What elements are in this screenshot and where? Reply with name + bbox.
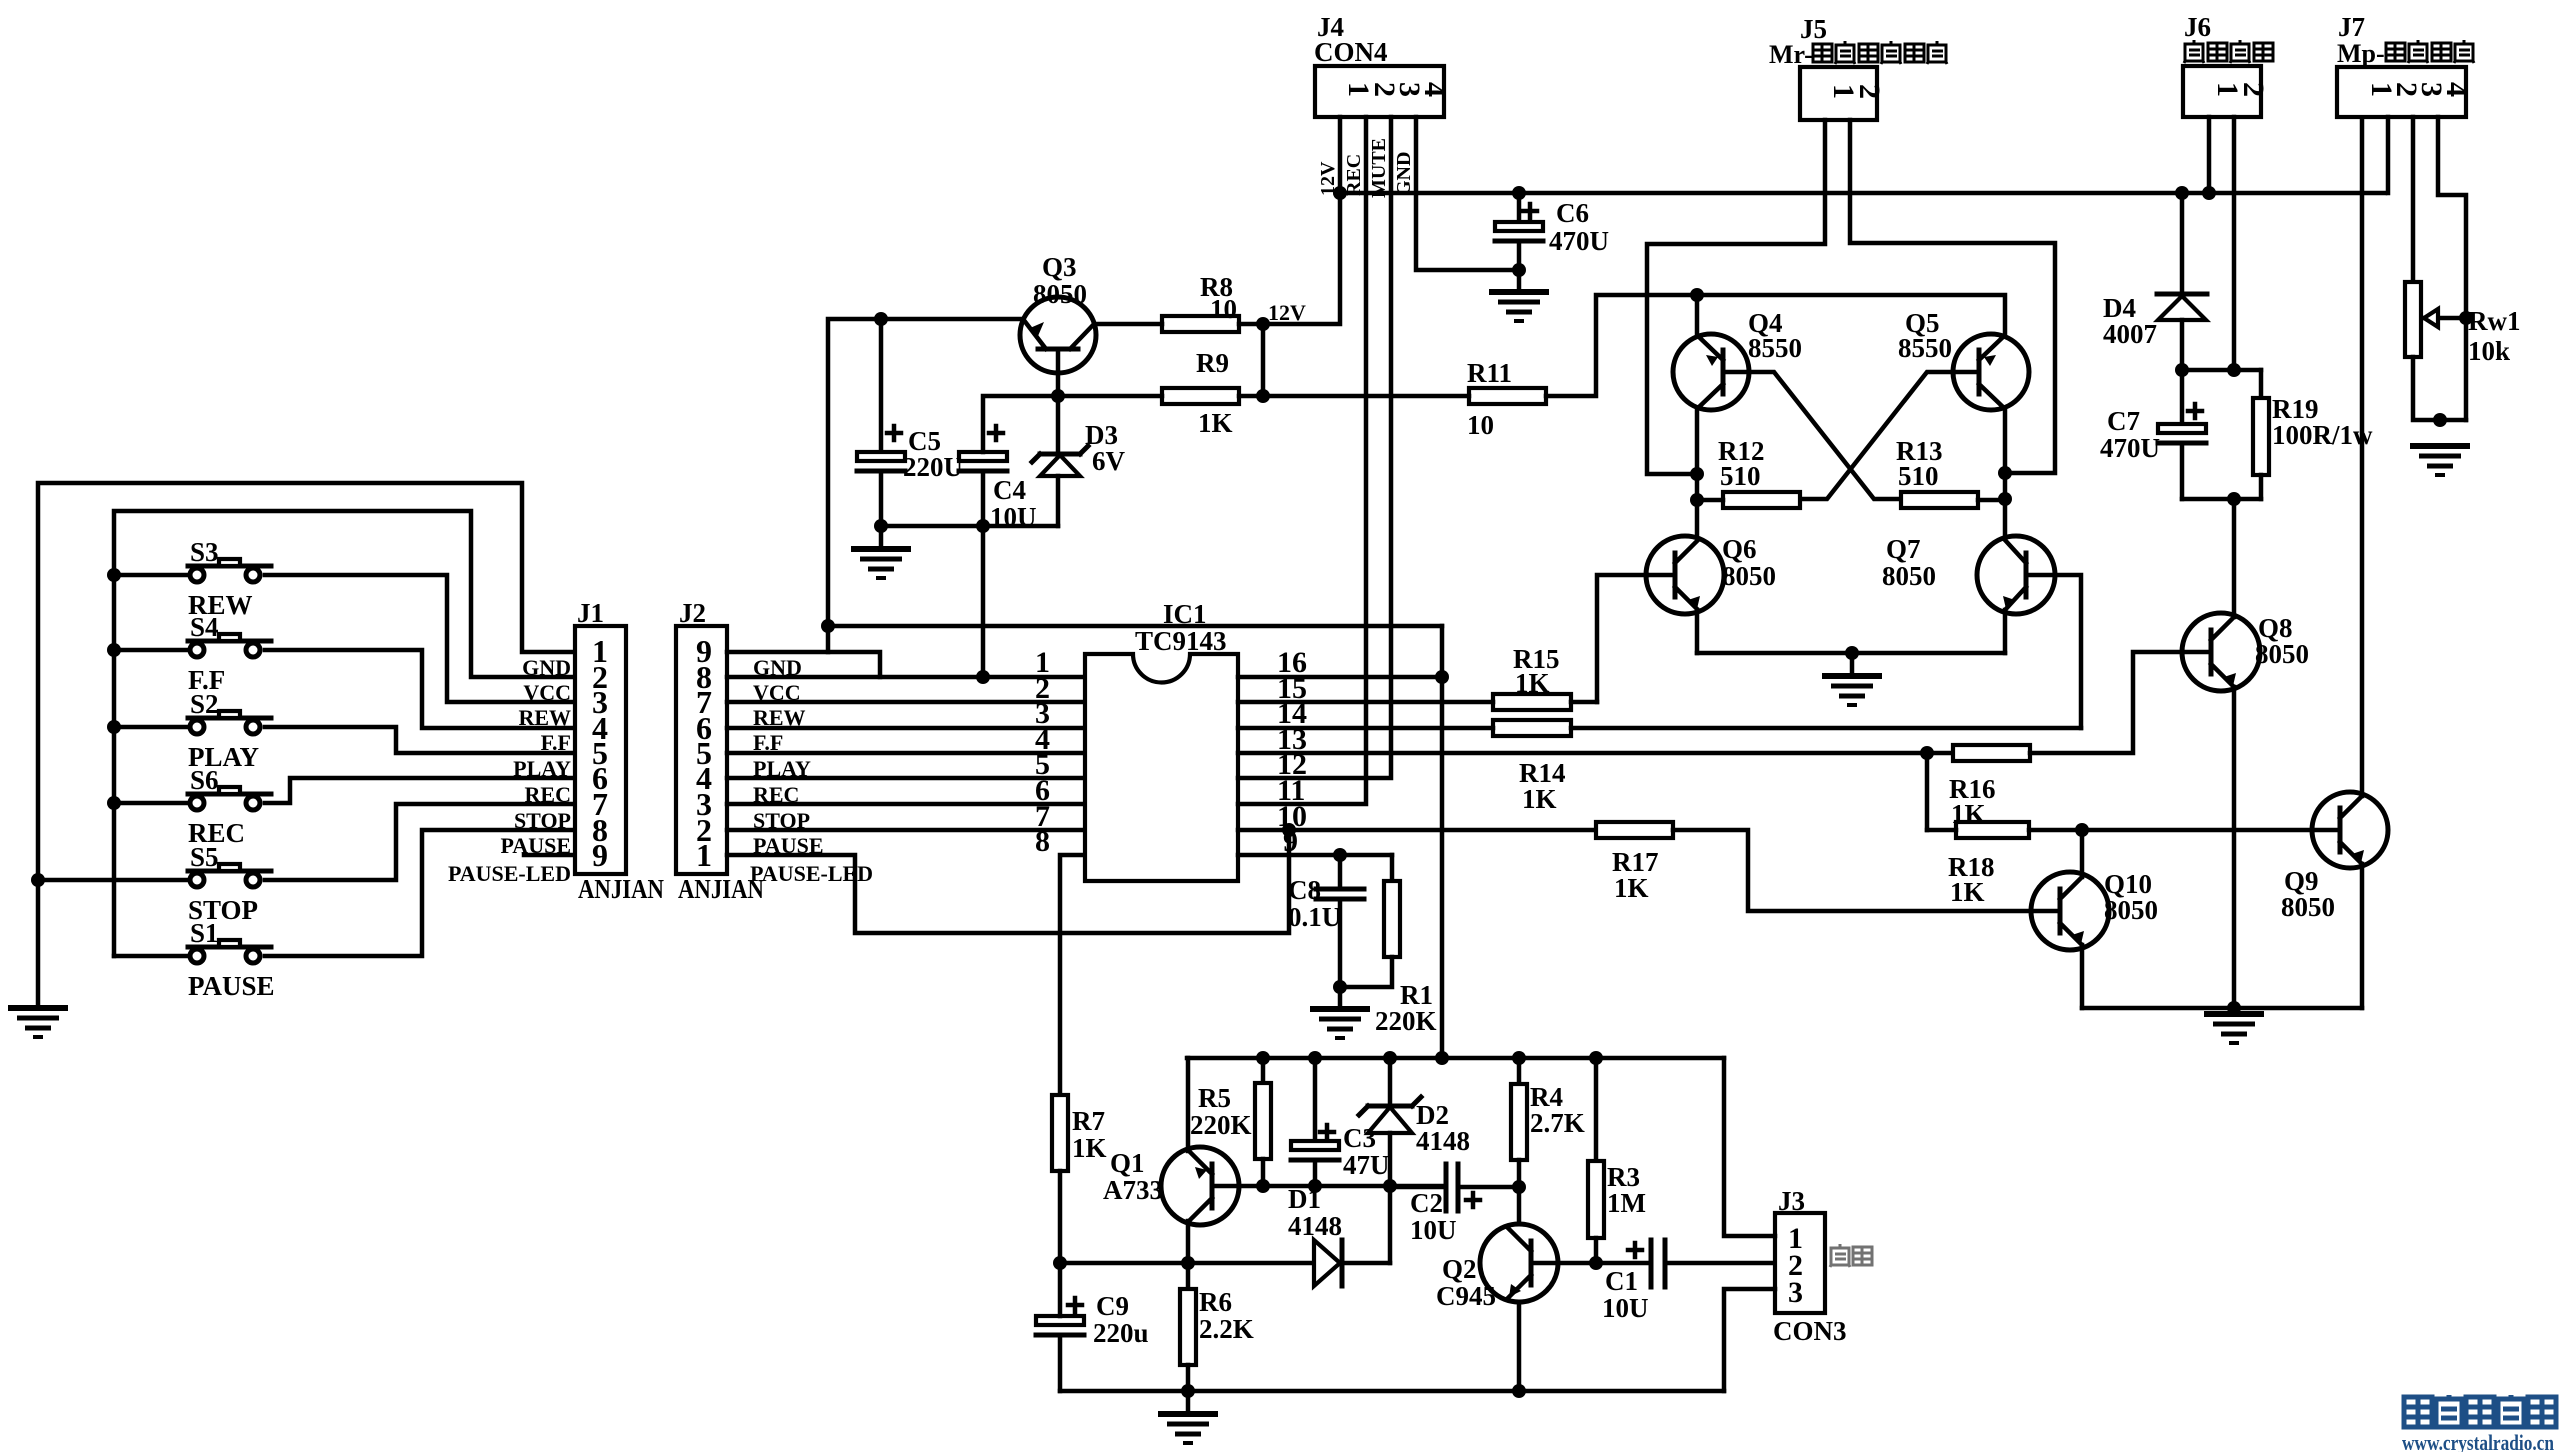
zener D3 6V <box>1032 373 1126 526</box>
junction: Q5 collector / R13 <box>1998 492 2012 506</box>
wire: Q9 emitter down <box>2360 864 2365 1008</box>
net label GND (rotated) <box>1393 152 1415 196</box>
svg-text:8050: 8050 <box>1722 561 1776 591</box>
capacitor C8 0.1U <box>1288 855 1364 987</box>
svg-text:S1: S1 <box>190 918 219 948</box>
wire: Q10 collector up to R18 row <box>2080 830 2085 877</box>
ground (C5 rail) <box>851 526 911 578</box>
wire: Q1 collector down <box>1186 1221 1191 1263</box>
svg-text:CON3: CON3 <box>1773 1316 1847 1346</box>
wire: J5 pin1 to Q4 collector <box>1647 120 1825 474</box>
junction: J6 pin2 row <box>2227 363 2241 377</box>
wire: J1 pin9 stub <box>524 853 575 858</box>
svg-text:510: 510 <box>1898 461 1939 491</box>
svg-text:S2: S2 <box>190 689 219 719</box>
wire: J2 pin5 PLAY row to IC pin5 <box>727 751 1085 756</box>
wire: S3 left to rail <box>107 568 190 582</box>
ground (oscillator) <box>1158 1391 1218 1443</box>
svg-text:0.1U: 0.1U <box>1288 902 1341 932</box>
J7 pin numbers 1-4 (rotated) <box>2365 82 2473 97</box>
svg-text:PAUSE-LED: PAUSE-LED <box>448 861 571 886</box>
svg-text:1K: 1K <box>1515 668 1550 698</box>
svg-text:TC9143: TC9143 <box>1135 626 1227 656</box>
label: 矿石收音机 watermark <box>2402 1395 2556 1452</box>
pin numbers J1 1-9 <box>592 633 608 873</box>
connector J5 Mr motor <box>1800 14 1877 120</box>
svg-text:9: 9 <box>592 837 608 873</box>
svg-text:8050: 8050 <box>1033 279 1087 309</box>
wire: oscillator top rail <box>1187 1056 1724 1061</box>
junction: R6 bottom <box>1181 1384 1195 1398</box>
wire: IC pin13 row to R16 <box>1238 751 1953 756</box>
resistor R13 510 <box>1896 436 2005 508</box>
svg-text:4: 4 <box>2440 82 2473 97</box>
svg-text:1M: 1M <box>1607 1188 1646 1218</box>
svg-text:8550: 8550 <box>1748 333 1802 363</box>
svg-text:2: 2 <box>1853 84 1886 99</box>
wire: Q6 emitter down <box>1695 610 1700 653</box>
svg-text:Mp-: Mp- <box>2337 39 2385 68</box>
junction: pin10 / PAUSE-LED riser <box>1282 823 1296 837</box>
connector J7 Mp motor <box>2337 12 2466 117</box>
svg-text:C4: C4 <box>993 475 1026 505</box>
svg-text:220K: 220K <box>1375 1006 1437 1036</box>
wire: J3 pin1 to rail <box>1724 1058 1775 1236</box>
svg-text:STOP: STOP <box>514 808 571 833</box>
capacitor C9 220u <box>1036 1263 1149 1391</box>
J1 side net labels <box>448 655 571 886</box>
svg-text:8550: 8550 <box>1898 333 1952 363</box>
junction: pin16 horizontal on 828 vertical <box>821 619 835 633</box>
svg-text:10: 10 <box>1467 410 1494 440</box>
svg-text:Q6: Q6 <box>1722 534 1757 564</box>
switch S4 <box>188 612 271 695</box>
svg-text:R5: R5 <box>1198 1083 1231 1113</box>
svg-text:1: 1 <box>696 837 712 873</box>
svg-text:1K: 1K <box>1522 784 1557 814</box>
net label REC (rotated) <box>1343 154 1365 196</box>
svg-text:S3: S3 <box>190 537 219 567</box>
svg-text:1K: 1K <box>1950 877 1985 907</box>
capacitor C2 10U <box>1390 1164 1519 1245</box>
transistor Q8 8050 <box>2182 613 2309 691</box>
wire: Q5 base cross diagonal to R12 <box>1800 372 1953 499</box>
ground (flip-flop) <box>1822 653 1882 705</box>
label: Mr-快进快倒电机 <box>1769 40 1947 69</box>
wire: J2 pin6 F.F row to IC pin4 <box>727 726 1085 731</box>
junction: C5 gnd <box>874 519 888 533</box>
wire: S6 right to J1 pin6 <box>265 778 575 803</box>
svg-text:4: 4 <box>1418 82 1451 97</box>
wire: S1 left to rail bottom <box>114 954 190 959</box>
wire: J2 pin7 REW row to IC pin3 <box>727 700 1085 705</box>
switch S2 <box>188 689 271 772</box>
resistor R8 10 <box>1094 272 1263 332</box>
svg-text:Q7: Q7 <box>1886 534 1921 564</box>
svg-text:R11: R11 <box>1467 358 1512 388</box>
svg-text:10U: 10U <box>1410 1215 1457 1245</box>
transistor Q10 8050 <box>2031 869 2158 950</box>
wire: J6 pin1 to bus <box>2207 117 2212 193</box>
wire: J4 pin1 12V feed <box>1263 117 1340 324</box>
op-amp U1: IC1 TC9143 controller <box>1085 599 1238 881</box>
IC1 left pin numbers 1-8 <box>1035 646 1050 858</box>
svg-text:C1: C1 <box>1605 1266 1638 1296</box>
wire: riser R16-left to R18-left <box>1925 753 1930 830</box>
wire: J2 pin2 PAUSE row to IC pin8 <box>727 828 1085 833</box>
wire: Q4 base cross diagonal to R13 <box>1749 372 1901 499</box>
resistor R15 1K <box>1238 644 1597 710</box>
resistor R7 1K <box>1052 1095 1107 1263</box>
wire: R11 to flip-flop emitters <box>1546 295 2005 396</box>
transistor Q7 8050 <box>1882 534 2055 614</box>
wire: Q1 emitter up to rail <box>1186 1058 1191 1151</box>
wire: Q1 base row <box>1239 1184 1446 1189</box>
svg-text:REC: REC <box>525 782 571 807</box>
pin numbers J2 9-1 <box>696 633 712 873</box>
junction: bus at D4 branch <box>2175 186 2189 200</box>
junction: emitter/C5 <box>874 312 888 326</box>
svg-text:PAUSE: PAUSE <box>501 833 572 858</box>
wire: Q4 emitter up <box>1695 295 1700 336</box>
node 12V <box>1256 300 1306 396</box>
resistor R16 1K <box>1949 745 2030 829</box>
wire: J2 pin9 GND row with jog to IC pin1 <box>727 652 1085 677</box>
svg-text:4148: 4148 <box>1288 1211 1342 1241</box>
wire: Q7 emitter down <box>2003 610 2008 653</box>
connector J6 播放磁吸 <box>2183 12 2261 117</box>
wire: R7 bottom to Q1 collector <box>1060 1261 1188 1266</box>
connector J1 <box>575 598 664 904</box>
junction: C6 bottom / J4 gnd <box>1512 263 1526 277</box>
wire: S2 right to J1 pin5 <box>265 727 575 753</box>
diode D4 4007 <box>2103 193 2207 370</box>
transistor Q6 8050 <box>1646 534 1776 614</box>
svg-text:CON4: CON4 <box>1314 37 1388 67</box>
capacitor C7 470U <box>2100 370 2206 499</box>
svg-text:470U: 470U <box>1549 226 1609 256</box>
junction: gnd rail tap <box>2227 1001 2241 1015</box>
wire: IC pin10 row to R17 <box>1238 828 1596 833</box>
svg-text:220u: 220u <box>1093 1318 1149 1348</box>
resistor R1 220K <box>1340 855 1437 1036</box>
wire: Q8/Q9/Q10 ground rail <box>2082 1006 2362 1011</box>
wire: pin16 link 828 to 1442 <box>828 624 1442 629</box>
junction: D2 bottom on base row <box>1383 1179 1397 1193</box>
wire: Q6 base from R15 riser <box>1597 575 1647 702</box>
connector J2 <box>676 598 764 904</box>
svg-text:10: 10 <box>1210 294 1237 324</box>
svg-text:R6: R6 <box>1199 1287 1232 1317</box>
junction: base/R5 <box>1256 1179 1270 1193</box>
transistor Q2 C945 <box>1436 1224 1558 1311</box>
wire: S1 right to J1 pin8 <box>265 830 575 956</box>
svg-text:D1: D1 <box>1288 1184 1321 1214</box>
wire: R18 to Q9 base <box>2029 828 2312 833</box>
wire: J7 pin4 to wiper rail <box>2438 117 2466 420</box>
svg-text:3: 3 <box>1788 1276 1803 1309</box>
svg-text:VCC: VCC <box>523 680 571 705</box>
zener D2 4148 <box>1359 1058 1470 1186</box>
junction: Q3 base / zener node <box>1051 389 1065 403</box>
svg-text:www.crystalradio.cn: www.crystalradio.cn <box>2402 1430 2554 1452</box>
svg-text:C2: C2 <box>1410 1188 1443 1218</box>
wire: ground rail left (node GND) <box>38 483 575 1005</box>
resistor R9 1K <box>1058 348 1263 438</box>
junction: R7 bottom node <box>1053 1256 1067 1270</box>
resistor R17 1K <box>1596 822 1673 903</box>
wire: pin16 riser to oscillator rail <box>1440 626 1445 1058</box>
wire: J2 pin8 VCC row <box>727 675 880 680</box>
J6 pin numbers (rotated) <box>2211 82 2270 97</box>
svg-text:470U: 470U <box>2100 433 2160 463</box>
junction: wiper tap <box>2459 311 2473 325</box>
junction: Q1 collector node <box>1181 1256 1195 1270</box>
capacitor C3 47U <box>1291 1058 1390 1186</box>
wire: C4 bottom <box>981 471 986 526</box>
label: 播放磁吸 <box>2184 40 2273 63</box>
wire: C7/R19 bottom row <box>2182 497 2261 502</box>
svg-text:8050: 8050 <box>2281 892 2335 922</box>
svg-text:REC: REC <box>1343 154 1365 196</box>
wire: J7 pin2 to bus end <box>2386 117 2391 193</box>
svg-text:Q2: Q2 <box>1442 1254 1477 1284</box>
svg-text:GND: GND <box>522 655 571 680</box>
transistor Q3 8050 <box>1020 252 1096 373</box>
junction: pin13/R18 riser <box>1920 746 1934 760</box>
junction: bus at C6 <box>1512 186 1526 200</box>
ground (Rw1) <box>2410 446 2470 475</box>
wire: J4 pin4 GND to C6 bottom <box>1416 117 1519 270</box>
wire: Q9 collector up to J7 pin1 <box>2360 117 2365 796</box>
wire: J4 pin2 REC to IC pin11 <box>1238 117 1366 804</box>
capacitor C1 10U <box>1602 1240 1775 1323</box>
svg-text:MUTE: MUTE <box>1368 138 1390 198</box>
resistor R3 1M <box>1588 1058 1646 1263</box>
svg-text:C945: C945 <box>1436 1281 1496 1311</box>
svg-text:ANJIAN: ANJIAN <box>578 874 664 904</box>
IC1 right pin numbers 16-9 <box>1277 646 1307 858</box>
svg-text:8050: 8050 <box>1882 561 1936 591</box>
svg-text:8050: 8050 <box>2255 639 2309 669</box>
wire: Q2 collector up <box>1517 1187 1522 1224</box>
svg-text:PAUSE: PAUSE <box>188 971 275 1001</box>
junction: Rw1 gnd tap <box>2433 413 2447 427</box>
wire: Rw1 bottom row <box>2413 357 2466 420</box>
svg-text:10U: 10U <box>1602 1293 1649 1323</box>
svg-text:1K: 1K <box>1072 1133 1107 1163</box>
svg-text:220K: 220K <box>1190 1110 1252 1140</box>
svg-text:100R/1w: 100R/1w <box>2272 420 2373 450</box>
wire: Q7 base from R14 riser <box>2055 575 2081 728</box>
svg-text:C7: C7 <box>2107 406 2140 436</box>
switch S5 <box>188 842 271 925</box>
resistor R4 2.7K <box>1511 1058 1585 1187</box>
wire: oscillator bottom rail <box>1060 1389 1724 1394</box>
svg-text:GND: GND <box>1393 152 1415 196</box>
junction: rail taps <box>1256 1051 1603 1065</box>
wire: J5 pin2 to Q5 collector <box>1850 120 2055 473</box>
junction: bus at J4 pin1 <box>1333 186 1347 200</box>
resistor R6 2.2K <box>1180 1263 1254 1391</box>
wire: S4 left to rail <box>107 643 190 657</box>
junction: C8 tap <box>1333 848 1347 862</box>
switch S3 <box>188 537 271 620</box>
label: Mp-播放电机 <box>2337 39 2474 68</box>
junction: Q2 emitter bottom <box>1512 1384 1526 1398</box>
junction: bus at J6 pin1 <box>2202 186 2216 200</box>
wire: Q4 collector down to R12/Q6 <box>1695 408 1700 537</box>
junction: Q4 collector / J5 wire <box>1690 467 1704 481</box>
svg-text:6V: 6V <box>1092 446 1126 476</box>
wire: J2 pin4 REC row to IC pin6 <box>727 776 1085 781</box>
J5 pin numbers 1-2 (rotated) <box>1827 84 1886 99</box>
svg-text:47U: 47U <box>1343 1150 1390 1180</box>
ground (C8/R1) <box>1310 987 1370 1038</box>
svg-text:4148: 4148 <box>1416 1126 1470 1156</box>
resistor R11 10 <box>1263 358 1546 440</box>
svg-text:R7: R7 <box>1072 1106 1105 1136</box>
svg-text:J6: J6 <box>2184 12 2211 42</box>
junction: R4/C2/Q2 collector <box>1512 1180 1526 1194</box>
svg-text:J2: J2 <box>679 598 706 628</box>
junction: Q4 collector / R12 <box>1690 493 1704 507</box>
wire: J4 pin3 MUTE to IC pin12 <box>1238 117 1391 778</box>
wire: 12V bus <box>1340 191 2385 196</box>
net label 12V (rotated) <box>1317 161 1339 196</box>
svg-text:2: 2 <box>2237 82 2270 97</box>
svg-text:8050: 8050 <box>2104 895 2158 925</box>
wire: Q10 emitter down <box>2080 945 2085 1008</box>
resistor R5 220K <box>1190 1058 1271 1186</box>
svg-text:4007: 4007 <box>2103 319 2157 349</box>
svg-text:1K: 1K <box>1198 408 1233 438</box>
svg-text:R9: R9 <box>1196 348 1229 378</box>
svg-text:2.7K: 2.7K <box>1530 1108 1585 1138</box>
ground (left rail) <box>8 1008 68 1037</box>
label: 霍尔 (hall) <box>1830 1244 1872 1267</box>
switch S1 <box>188 918 275 1001</box>
wire: J7 pin3 to Rw1 top <box>2411 117 2416 282</box>
junction: pin16 row <box>1435 670 1449 684</box>
resistor R19 100R/1w <box>2253 370 2373 499</box>
svg-text:J7: J7 <box>2338 12 2365 42</box>
capacitor C4 10U <box>959 426 1037 532</box>
junction: C3 bottom on base row <box>1308 1179 1322 1193</box>
wire: S5 left to ground rail <box>31 873 190 887</box>
ground (C6) <box>1489 270 1549 321</box>
wire: D4/C7/R19 top row <box>2182 368 2261 373</box>
wire: S3 right to J1 pin3 <box>265 575 575 702</box>
svg-text:PLAY: PLAY <box>513 756 571 781</box>
wire: IC pin16 row <box>1238 675 1442 680</box>
ground (output stage) <box>2204 1014 2264 1043</box>
connector J3 CON3 <box>1773 1186 1847 1346</box>
svg-text:C8: C8 <box>1288 875 1321 905</box>
wire: C5 top lead <box>879 319 884 456</box>
wire: Q2 emitter down to gnd rail <box>1517 1302 1522 1391</box>
junction: R9/R11 row at 12V drop <box>1256 389 1270 403</box>
svg-text:510: 510 <box>1720 461 1761 491</box>
junction: Q10 collector on R18 row <box>2075 823 2089 837</box>
wire: D1 cathode riser to D2 <box>1388 1186 1393 1263</box>
transistor Q4 8550 <box>1673 308 1802 410</box>
wire: Q8 collector up to C7/R19 rail <box>2232 499 2237 617</box>
wire: Q5 collector down to R13/Q7 <box>2003 408 2008 537</box>
svg-text:Q1: Q1 <box>1110 1148 1145 1178</box>
junction: C4 gnd <box>976 519 990 533</box>
potentiometer Rw1 10k <box>2405 282 2521 366</box>
svg-text:8: 8 <box>1035 825 1050 858</box>
svg-text:10k: 10k <box>2468 336 2510 366</box>
wire: S6 left to rail <box>107 796 190 810</box>
capacitor C5 220U <box>857 426 963 482</box>
junction: C4 rail to IC pin1 <box>976 670 990 684</box>
transistor Q5 8550 <box>1898 308 2029 410</box>
J2 side net labels <box>750 655 873 886</box>
wire: switch common rail to J1 pin2 <box>114 511 575 956</box>
svg-text:REW: REW <box>518 705 571 730</box>
wire: C4 rail down to IC pin1 row <box>981 526 986 677</box>
junction: base/R3 <box>1589 1256 1603 1270</box>
junction: C8/R1 bottom <box>1333 980 1347 994</box>
wire: Q2 base row <box>1558 1261 1651 1266</box>
wire: J3 pin3 to bottom rail <box>1724 1289 1775 1391</box>
wire: C4 top to base node <box>983 396 1058 452</box>
svg-text:J1: J1 <box>577 598 604 628</box>
wire: R17 to Q10 base <box>1673 830 2031 911</box>
wire: Q6/Q7 emitter gnd rail <box>1697 651 2005 656</box>
switch S6 <box>188 765 271 848</box>
net label MUTE (rotated) <box>1368 138 1390 198</box>
svg-text:Rw1: Rw1 <box>2468 306 2521 336</box>
wire: S2 left to rail <box>107 720 190 734</box>
wire: J2 pin1 PAUSE-LED run to pin10 node <box>727 830 1289 933</box>
svg-text:C6: C6 <box>1556 198 1589 228</box>
svg-text:2.2K: 2.2K <box>1199 1314 1254 1344</box>
wire: gnd rail under C5/C4/D3 <box>881 524 1058 529</box>
wire: IC pin9 row <box>1238 853 1392 858</box>
svg-text:12V: 12V <box>1268 300 1306 325</box>
connector J4 CON4 <box>1314 12 1444 117</box>
junction: emitter rail gnd tap <box>1845 646 1859 660</box>
svg-text:1K: 1K <box>1614 873 1649 903</box>
svg-text:S6: S6 <box>190 765 219 795</box>
svg-text:F.F: F.F <box>541 730 571 755</box>
wire: Q8 emitter down to gnd rail <box>2232 687 2237 1008</box>
wire: R16 to Q8 base <box>2030 652 2183 753</box>
wire: S5 right to J1 pin7 <box>265 804 575 880</box>
wire: IC pin8 stub to R7 feed <box>1060 855 1085 1095</box>
resistor R12 510 <box>1697 436 1800 508</box>
svg-text:S5: S5 <box>190 842 219 872</box>
svg-text:Mr-: Mr- <box>1769 40 1813 69</box>
svg-text:A733: A733 <box>1103 1175 1163 1205</box>
svg-text:220U: 220U <box>903 452 963 482</box>
diode D1 4148 <box>1188 1184 1390 1286</box>
junction: Q5 collector / J5 wire <box>1998 466 2012 480</box>
capacitor C6 470U <box>1495 193 1609 270</box>
resistor R18 1K <box>1927 822 2029 907</box>
transistor Q9 8050 <box>2281 792 2388 922</box>
J4 pin numbers 1-4 (rotated) <box>1342 82 1451 97</box>
svg-text:J3: J3 <box>1778 1186 1805 1216</box>
svg-text:C9: C9 <box>1096 1291 1129 1321</box>
wire: J6 pin2 to D4 cathode node <box>2232 117 2237 370</box>
wire: J2 pin3 STOP row to IC pin7 <box>727 802 1085 807</box>
junction: bottom row to Q8 <box>2227 492 2241 506</box>
wire: Q3 emitter to C5 node and GND link <box>828 319 1023 652</box>
